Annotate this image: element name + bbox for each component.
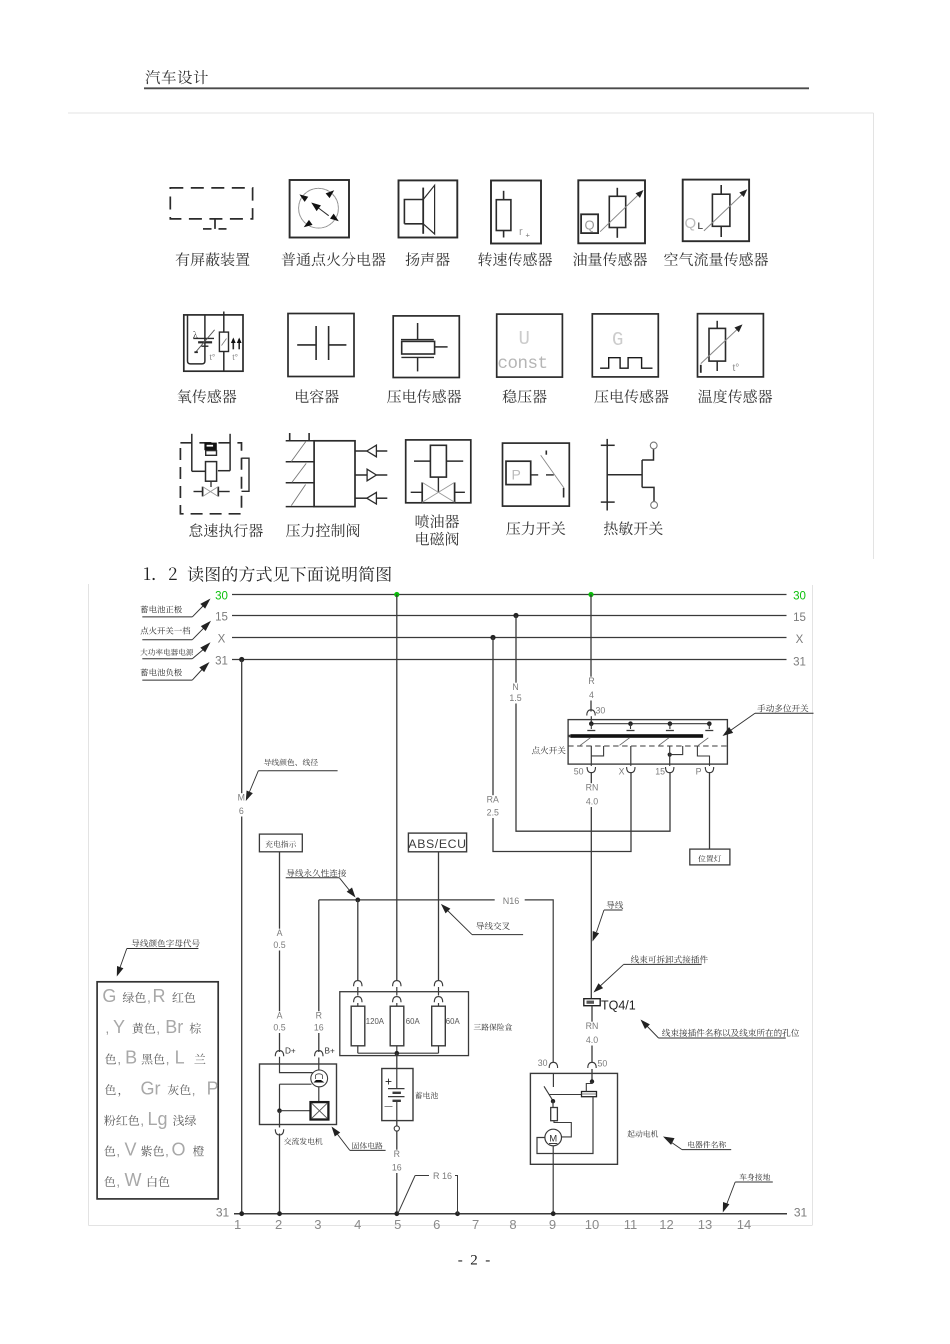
svg-text:,: , bbox=[156, 1020, 160, 1036]
svg-text:6: 6 bbox=[239, 806, 244, 816]
svg-text:8: 8 bbox=[509, 1217, 516, 1232]
svg-text:t°: t° bbox=[733, 363, 740, 374]
svg-text:N16: N16 bbox=[503, 896, 520, 906]
svg-text:5: 5 bbox=[394, 1217, 401, 1232]
svg-text:13: 13 bbox=[698, 1217, 712, 1232]
svg-text:U: U bbox=[519, 328, 530, 350]
svg-text:1.5: 1.5 bbox=[509, 693, 521, 703]
svg-text:31: 31 bbox=[215, 656, 228, 668]
svg-text:,: , bbox=[117, 1051, 121, 1067]
svg-text:16: 16 bbox=[392, 1163, 402, 1173]
svg-text:RA: RA bbox=[487, 795, 499, 805]
svg-text:B: B bbox=[125, 1048, 137, 1068]
svg-text:R: R bbox=[394, 1149, 400, 1159]
svg-text:4: 4 bbox=[589, 690, 594, 700]
svg-text:15: 15 bbox=[655, 767, 665, 777]
svg-text:0.5: 0.5 bbox=[273, 940, 285, 950]
svg-text:R 16: R 16 bbox=[433, 1171, 452, 1181]
svg-text:10: 10 bbox=[585, 1217, 599, 1232]
svg-text:X: X bbox=[619, 767, 625, 777]
svg-text:7: 7 bbox=[472, 1217, 479, 1232]
svg-text:M: M bbox=[238, 793, 245, 803]
svg-text:9: 9 bbox=[549, 1217, 556, 1232]
svg-text:16: 16 bbox=[314, 1023, 324, 1033]
svg-text:Q: Q bbox=[685, 215, 697, 232]
svg-text:3: 3 bbox=[314, 1217, 321, 1232]
svg-text:A: A bbox=[277, 928, 283, 938]
svg-text:14: 14 bbox=[737, 1217, 751, 1232]
svg-text:+: + bbox=[526, 231, 531, 240]
svg-text:30: 30 bbox=[793, 591, 806, 603]
svg-text:15: 15 bbox=[793, 612, 806, 624]
svg-text:- 2 -: - 2 - bbox=[458, 1253, 491, 1269]
svg-text:,: , bbox=[116, 1143, 120, 1159]
svg-text:,: , bbox=[105, 1020, 109, 1036]
svg-text:,: , bbox=[165, 1143, 169, 1159]
svg-text:R: R bbox=[588, 676, 594, 686]
svg-text:G: G bbox=[102, 986, 116, 1006]
svg-text:N: N bbox=[512, 682, 518, 692]
svg-text:X: X bbox=[796, 634, 804, 646]
svg-text:O: O bbox=[172, 1140, 186, 1160]
svg-text:ABS/ECU: ABS/ECU bbox=[408, 837, 466, 851]
svg-text:P: P bbox=[696, 767, 702, 777]
svg-text:,: , bbox=[116, 1173, 120, 1189]
svg-text:Lg: Lg bbox=[148, 1109, 168, 1129]
svg-text:60A: 60A bbox=[406, 1017, 421, 1026]
svg-text:,: , bbox=[166, 1051, 170, 1067]
svg-text:RN: RN bbox=[586, 783, 599, 793]
svg-text:L: L bbox=[698, 221, 704, 231]
svg-text:Gr: Gr bbox=[141, 1078, 161, 1098]
svg-text:t°: t° bbox=[232, 352, 238, 362]
svg-text:Y: Y bbox=[113, 1017, 125, 1037]
svg-text:30: 30 bbox=[215, 591, 228, 603]
svg-text:RN: RN bbox=[586, 1021, 599, 1031]
svg-text:D+: D+ bbox=[285, 1047, 296, 1056]
svg-text:P: P bbox=[512, 467, 521, 483]
svg-text:X: X bbox=[218, 634, 226, 646]
svg-text:—: — bbox=[385, 1102, 393, 1111]
svg-text:0.5: 0.5 bbox=[273, 1023, 285, 1033]
svg-text:t°: t° bbox=[210, 352, 216, 362]
svg-text:+: + bbox=[385, 1075, 392, 1089]
svg-text:50: 50 bbox=[598, 1059, 608, 1069]
svg-text:30: 30 bbox=[596, 706, 606, 716]
svg-text:R: R bbox=[153, 986, 166, 1006]
svg-text:11: 11 bbox=[624, 1217, 638, 1232]
svg-text:30: 30 bbox=[538, 1058, 548, 1068]
svg-text:P: P bbox=[207, 1078, 219, 1098]
svg-text:TQ4/1: TQ4/1 bbox=[601, 999, 636, 1013]
svg-text:Br: Br bbox=[165, 1017, 183, 1037]
svg-text:1: 1 bbox=[234, 1217, 241, 1232]
svg-text:V: V bbox=[125, 1140, 137, 1160]
svg-text:A: A bbox=[277, 1011, 283, 1021]
svg-text:,: , bbox=[192, 1081, 196, 1097]
svg-text:R: R bbox=[316, 1011, 322, 1021]
svg-text:31: 31 bbox=[216, 1206, 230, 1220]
svg-text:4: 4 bbox=[354, 1217, 361, 1232]
svg-text:15: 15 bbox=[215, 612, 228, 624]
svg-text:2.5: 2.5 bbox=[487, 808, 499, 818]
svg-text:50: 50 bbox=[574, 767, 584, 777]
svg-text:120A: 120A bbox=[366, 1017, 385, 1026]
svg-text:G: G bbox=[612, 329, 623, 351]
svg-text:,: , bbox=[140, 1112, 144, 1128]
svg-text:M: M bbox=[549, 1134, 557, 1145]
svg-text:6: 6 bbox=[433, 1217, 440, 1232]
svg-text:60A: 60A bbox=[446, 1017, 461, 1026]
svg-text:31: 31 bbox=[793, 657, 806, 669]
svg-text:L: L bbox=[175, 1048, 185, 1068]
svg-text:,: , bbox=[147, 989, 151, 1005]
svg-text:Q: Q bbox=[585, 218, 595, 233]
svg-text:12: 12 bbox=[659, 1217, 673, 1232]
svg-text:4.0: 4.0 bbox=[586, 1035, 598, 1045]
svg-text:r: r bbox=[519, 226, 523, 238]
svg-text:2: 2 bbox=[275, 1217, 282, 1232]
svg-text:31: 31 bbox=[794, 1206, 808, 1220]
svg-text:const: const bbox=[498, 354, 548, 374]
svg-text:B+: B+ bbox=[325, 1047, 335, 1056]
svg-text:4.0: 4.0 bbox=[586, 797, 598, 807]
svg-text:W: W bbox=[125, 1170, 142, 1190]
